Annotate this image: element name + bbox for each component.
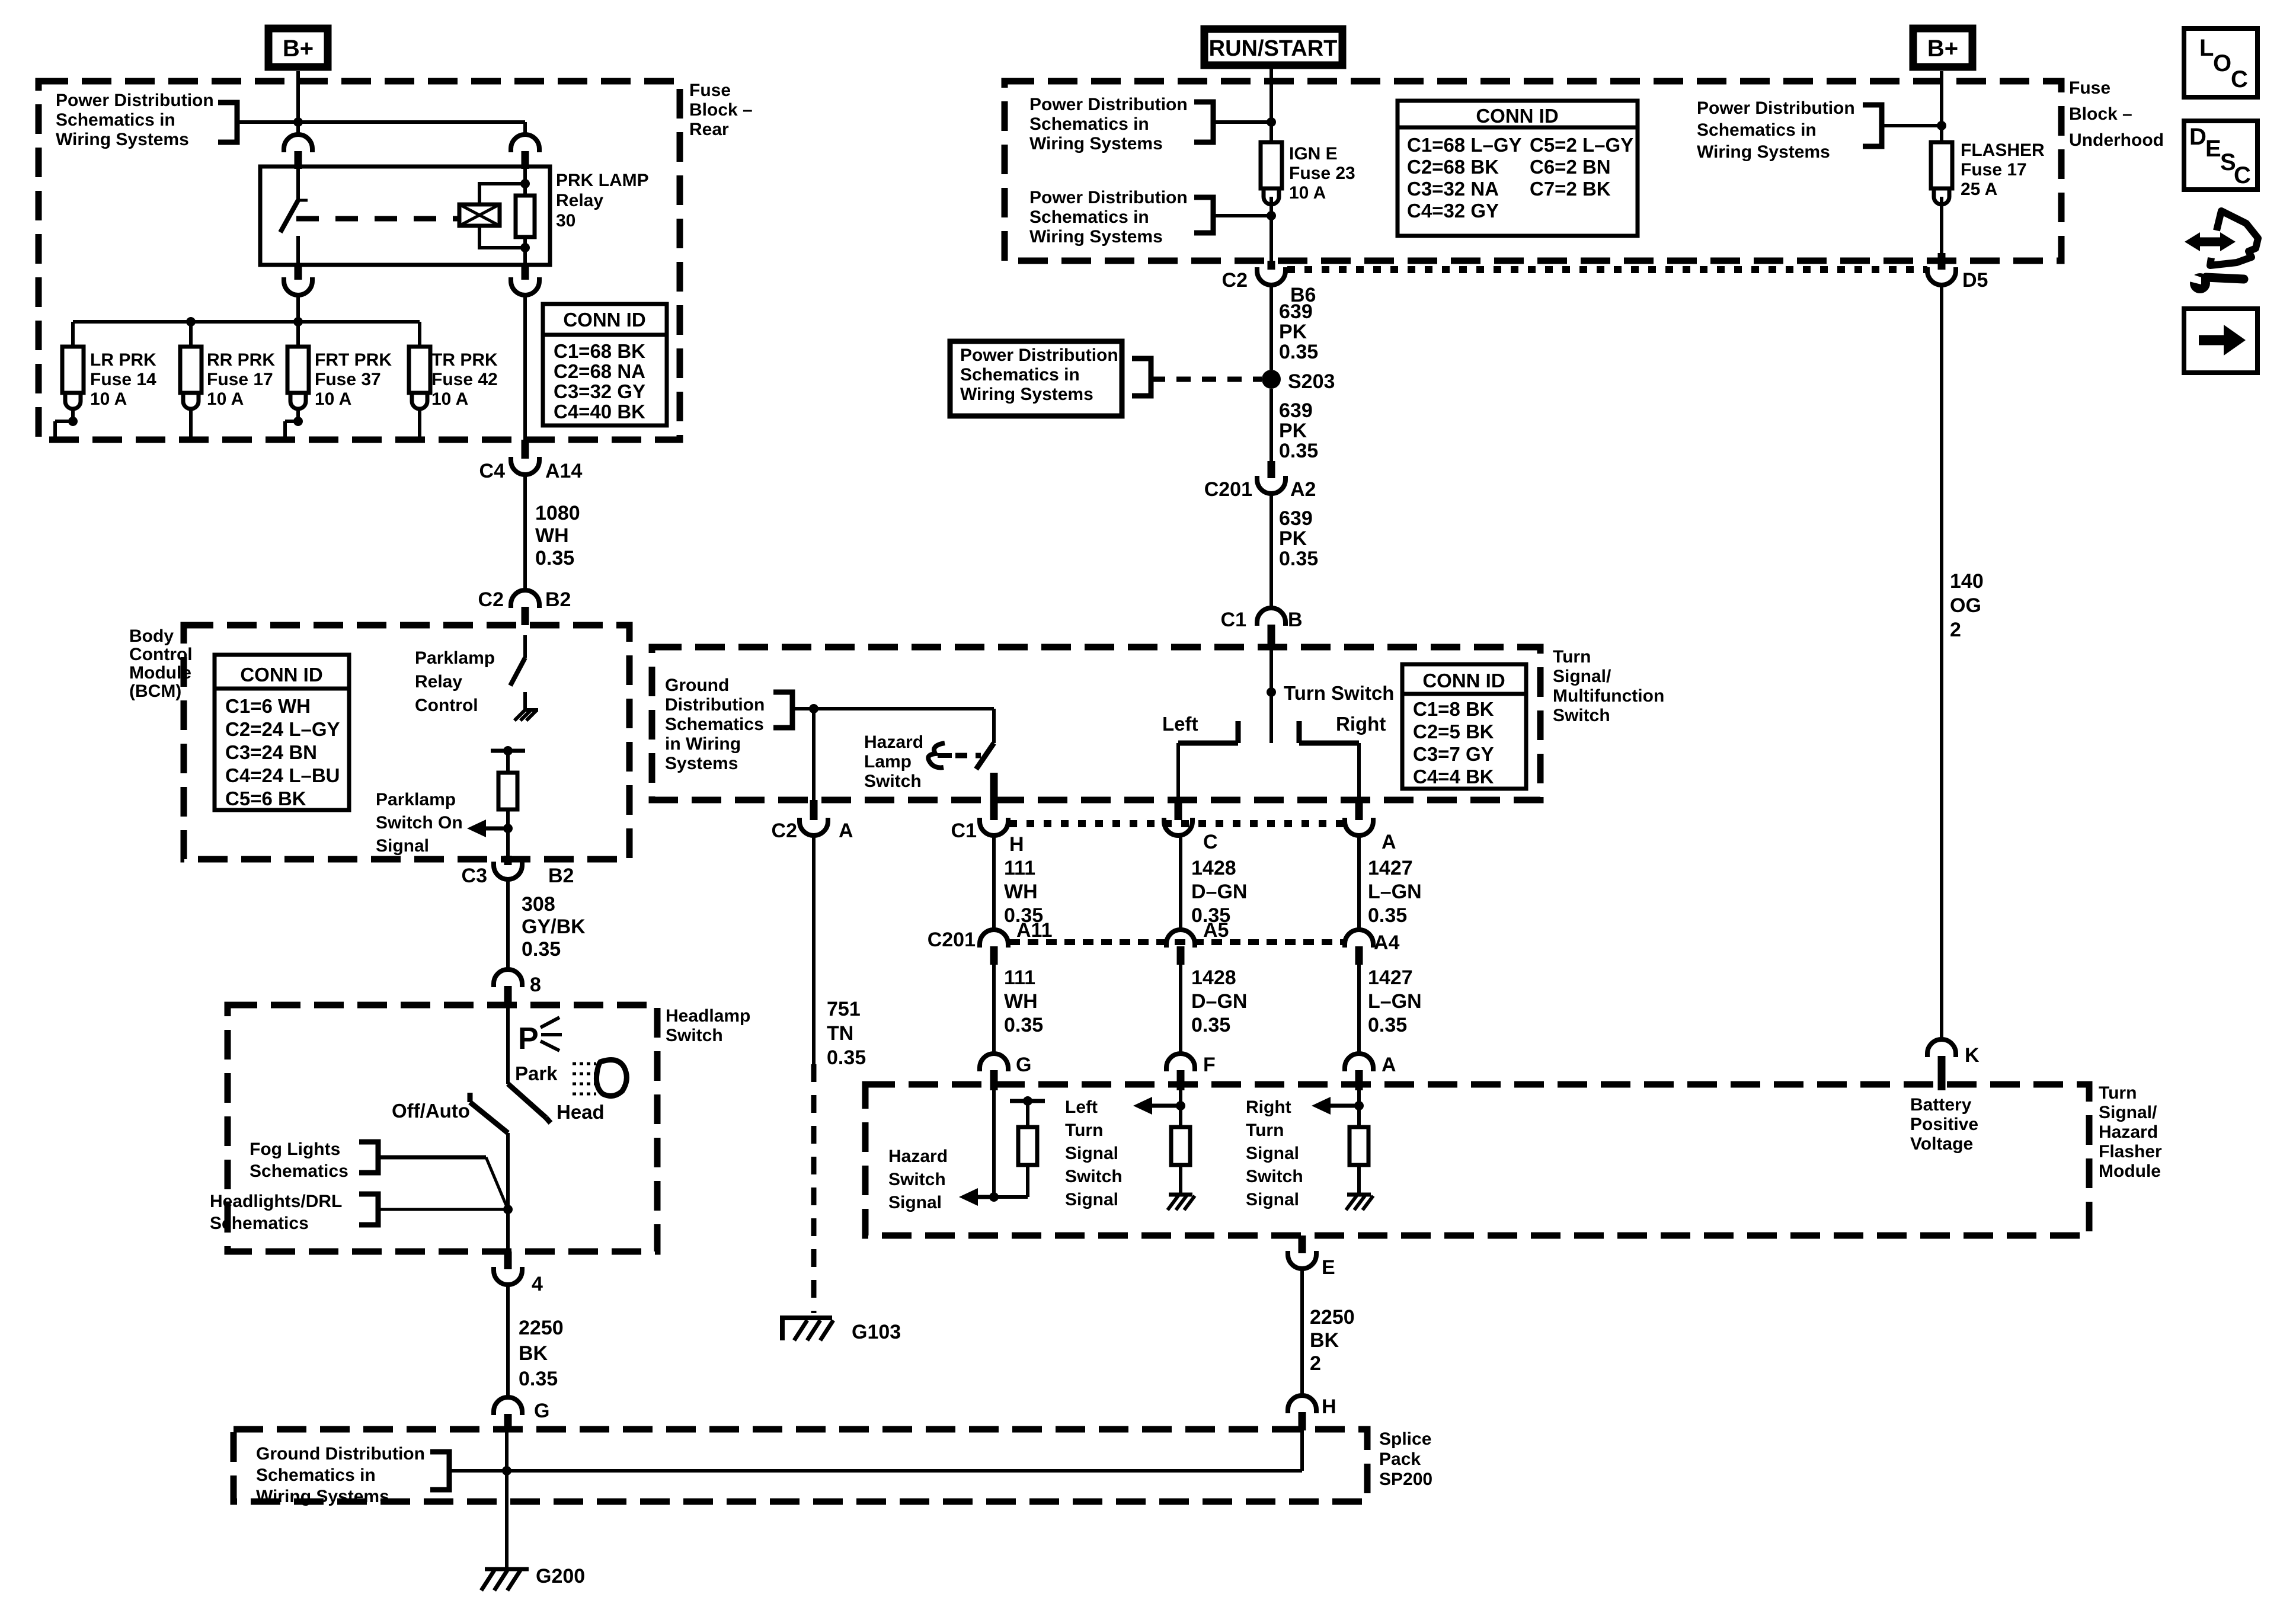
svg-text:Switch On: Switch On xyxy=(376,813,463,833)
svg-text:A: A xyxy=(1382,831,1396,853)
dashed link connector row C201 xyxy=(1009,939,1344,945)
svg-text:Schematics in: Schematics in xyxy=(56,110,175,130)
wire 2250 BK 2 xyxy=(1300,1269,1304,1395)
svg-text:PK: PK xyxy=(1279,420,1307,442)
svg-text:Splice: Splice xyxy=(1379,1429,1431,1449)
svg-text:Schematics in: Schematics in xyxy=(960,365,1080,385)
resistor relay parallel xyxy=(523,169,527,196)
node FRT fuse junction xyxy=(293,417,303,426)
wire turn switch feed xyxy=(1269,647,1273,743)
svg-text:Block –: Block – xyxy=(2069,104,2132,124)
connector relay out left xyxy=(295,265,302,280)
svg-text:Parklamp: Parklamp xyxy=(415,648,495,668)
svg-text:Schematics in: Schematics in xyxy=(1029,114,1149,134)
connector E flasher ground out xyxy=(1299,1235,1306,1253)
svg-text:BK: BK xyxy=(1310,1329,1339,1352)
icon wrench xyxy=(2190,273,2210,293)
svg-text:K: K xyxy=(1965,1044,1980,1067)
switch parklamp relay control xyxy=(523,635,527,658)
wire bracket underhood to junction xyxy=(1882,124,1942,127)
wire headlights DRL xyxy=(378,1208,508,1211)
node underhood junction xyxy=(1937,121,1946,130)
fuse RR PRK Fuse 17 xyxy=(180,347,202,393)
connector 4 below headlamp switch xyxy=(504,1251,512,1269)
svg-text:Switch: Switch xyxy=(888,1170,946,1189)
svg-text:Module: Module xyxy=(2099,1161,2161,1181)
node left turn junction xyxy=(1176,1101,1185,1110)
connector G ground wire xyxy=(494,1397,522,1415)
connector D5 xyxy=(1938,253,1946,270)
svg-text:0.35: 0.35 xyxy=(1279,341,1318,363)
svg-text:C4=24 L–BU: C4=24 L–BU xyxy=(225,764,340,786)
wire TR fuse out xyxy=(418,410,421,440)
svg-text:Signal/: Signal/ xyxy=(1553,667,1611,686)
node ignition junction upper xyxy=(1267,117,1276,127)
wire headlamp out xyxy=(506,1133,510,1251)
connector C201 A4 xyxy=(1345,930,1373,948)
fuse IGN E Fuse 23 xyxy=(1261,142,1282,188)
svg-text:B2: B2 xyxy=(545,588,571,611)
svg-text:10 A: 10 A xyxy=(207,389,244,409)
svg-text:Switch: Switch xyxy=(1553,706,1610,725)
svg-text:Control: Control xyxy=(415,696,478,715)
svg-text:1428: 1428 xyxy=(1191,857,1236,879)
table CONN ID BCM xyxy=(215,655,349,810)
fuse TR PRK Fuse 42 xyxy=(409,347,430,393)
contact hazard lower xyxy=(990,773,998,800)
dashed box ground distribution bottom xyxy=(234,1429,1367,1502)
svg-text:CONN ID: CONN ID xyxy=(563,309,645,331)
svg-text:C6=2 BN: C6=2 BN xyxy=(1530,156,1611,178)
svg-text:E: E xyxy=(2205,136,2221,162)
svg-text:Turn: Turn xyxy=(2099,1083,2137,1103)
arrow parklamp switch on signal xyxy=(467,820,486,837)
svg-text:Schematics: Schematics xyxy=(250,1161,348,1181)
connector C2 B6 xyxy=(1268,261,1275,270)
node parklamp signal junction xyxy=(503,824,513,833)
svg-text:in Wiring: in Wiring xyxy=(665,734,741,754)
svg-text:Block –: Block – xyxy=(689,100,753,120)
svg-text:TR PRK: TR PRK xyxy=(431,350,498,370)
svg-text:L: L xyxy=(2199,35,2214,61)
svg-text:C2=68 BK: C2=68 BK xyxy=(1407,156,1499,178)
svg-text:10 A: 10 A xyxy=(90,389,127,409)
wire RUN/START down xyxy=(1269,69,1273,142)
svg-text:Right: Right xyxy=(1246,1097,1291,1117)
wire hazard feed down xyxy=(812,709,816,800)
icon box LOC xyxy=(2184,28,2257,97)
wire to C3 xyxy=(506,828,510,856)
svg-text:Head: Head xyxy=(557,1101,605,1123)
connector C3 B2 xyxy=(494,862,522,879)
wire bracket lower to junction xyxy=(1213,214,1271,217)
dashed ref wire to S203 xyxy=(1151,377,1262,382)
svg-text:C201: C201 xyxy=(928,929,976,951)
svg-text:CONN ID: CONN ID xyxy=(240,664,322,686)
wire hazard into module xyxy=(992,1090,996,1197)
svg-text:A5: A5 xyxy=(1203,919,1229,942)
arrow hazard switch signal xyxy=(959,1188,978,1206)
connector H splice pack xyxy=(1288,1395,1316,1413)
svg-text:4: 4 xyxy=(532,1273,543,1295)
svg-text:A11: A11 xyxy=(1016,919,1053,942)
relay mechanical dashed link xyxy=(296,216,459,222)
svg-text:CONN ID: CONN ID xyxy=(1476,105,1558,127)
svg-text:A14: A14 xyxy=(545,460,582,482)
svg-text:Power Distribution: Power Distribution xyxy=(1697,98,1855,118)
svg-text:C5=2 L–GY: C5=2 L–GY xyxy=(1530,134,1633,156)
svg-text:TN: TN xyxy=(827,1022,853,1045)
icon headlamp hatch xyxy=(573,1062,596,1065)
svg-text:C3=24 BN: C3=24 BN xyxy=(225,741,317,763)
svg-text:C4: C4 xyxy=(479,460,506,482)
svg-text:Signal: Signal xyxy=(1246,1144,1299,1163)
connector C1 B into turn switch xyxy=(1257,608,1285,626)
wire bus drop FRT xyxy=(296,322,300,347)
svg-text:Switch: Switch xyxy=(1065,1167,1123,1186)
svg-text:C3: C3 xyxy=(462,865,487,887)
svg-text:Left: Left xyxy=(1065,1097,1098,1117)
wire 111 WH lower xyxy=(992,965,996,1054)
svg-text:Fuse 14: Fuse 14 xyxy=(90,370,156,389)
svg-text:G200: G200 xyxy=(536,1565,585,1587)
svg-text:A: A xyxy=(1382,1054,1396,1076)
resistor right turn xyxy=(1357,1106,1361,1127)
svg-text:C3=7 GY: C3=7 GY xyxy=(1413,743,1494,765)
icon pointer outline xyxy=(2210,211,2258,265)
bracket S203 ref xyxy=(1132,359,1151,396)
wire fuse bus xyxy=(73,320,420,324)
svg-text:2250: 2250 xyxy=(1310,1306,1355,1329)
wire 1080 WH xyxy=(523,475,527,590)
svg-text:OG: OG xyxy=(1950,594,1981,617)
svg-text:D: D xyxy=(2189,124,2207,150)
svg-text:WH: WH xyxy=(535,524,569,547)
svg-text:PK: PK xyxy=(1279,321,1307,343)
svg-text:Turn: Turn xyxy=(1553,647,1591,667)
svg-text:C: C xyxy=(2234,162,2251,188)
wire 2250 BK 0.35 xyxy=(506,1285,510,1397)
table CONN ID underhood xyxy=(1398,101,1638,236)
svg-text:IGN E: IGN E xyxy=(1289,144,1338,164)
svg-text:Signal/: Signal/ xyxy=(2099,1103,2157,1122)
rail hazard pullup xyxy=(1010,1099,1045,1103)
svg-text:639: 639 xyxy=(1279,507,1313,530)
bracket to power distribution (rear) xyxy=(218,103,237,142)
svg-text:Rear: Rear xyxy=(689,120,729,139)
svg-text:L–GN: L–GN xyxy=(1368,881,1422,903)
switch hazard blade xyxy=(992,709,996,743)
dashed box Body Control Module xyxy=(184,625,629,859)
icon hazard button xyxy=(928,743,945,767)
svg-text:Switch: Switch xyxy=(666,1026,723,1045)
svg-text:0.35: 0.35 xyxy=(522,938,561,961)
splice S203 xyxy=(1262,370,1281,389)
svg-text:Schematics: Schematics xyxy=(210,1214,309,1233)
svg-text:(BCM): (BCM) xyxy=(129,681,181,701)
power label RUN/START xyxy=(1204,29,1342,65)
svg-text:GY/BK: GY/BK xyxy=(522,916,586,938)
dashed box Turn Signal Hazard Flasher Module xyxy=(865,1084,2089,1235)
svg-text:Fuse 23: Fuse 23 xyxy=(1289,164,1355,183)
svg-text:Fog Lights: Fog Lights xyxy=(250,1140,340,1159)
connector C2 A hazard xyxy=(810,800,818,820)
node bus junction FRT xyxy=(293,317,303,327)
svg-text:B+: B+ xyxy=(283,36,314,62)
svg-text:B2: B2 xyxy=(548,865,574,887)
svg-text:LR PRK: LR PRK xyxy=(90,350,156,370)
svg-text:2250: 2250 xyxy=(519,1317,564,1339)
svg-text:Lamp: Lamp xyxy=(864,752,912,772)
svg-text:Schematics in: Schematics in xyxy=(1029,207,1149,227)
box Power Distribution Schematics (S203) xyxy=(950,341,1122,416)
svg-text:C2=5 BK: C2=5 BK xyxy=(1413,721,1494,742)
dotted link connector row C1 xyxy=(1009,820,1344,827)
svg-text:C7=2 BK: C7=2 BK xyxy=(1530,178,1611,200)
connector F flasher xyxy=(1166,1054,1195,1071)
svg-text:308: 308 xyxy=(522,893,555,916)
svg-text:Schematics: Schematics xyxy=(665,715,764,734)
svg-text:C: C xyxy=(1203,831,1218,853)
wire 751 TN hazard ground xyxy=(812,836,816,1064)
connector 8 into headlamp switch xyxy=(494,969,522,987)
dashed box Turn Signal Multifunction Switch xyxy=(652,647,1540,800)
svg-text:C5=6 BK: C5=6 BK xyxy=(225,788,306,809)
svg-text:Fuse: Fuse xyxy=(689,81,731,100)
svg-text:C4=40 BK: C4=40 BK xyxy=(554,401,645,422)
resistor parklamp pullup xyxy=(506,751,510,773)
svg-text:C4=4 BK: C4=4 BK xyxy=(1413,766,1494,788)
svg-text:Signal: Signal xyxy=(888,1193,942,1212)
switch blade off/auto xyxy=(468,1093,473,1102)
svg-text:C4=32 GY: C4=32 GY xyxy=(1407,200,1499,222)
node ignition junction lower xyxy=(1267,211,1276,220)
ground right turn internal xyxy=(1347,1193,1371,1197)
svg-text:0.35: 0.35 xyxy=(1368,904,1407,927)
svg-text:C2: C2 xyxy=(478,588,504,611)
svg-text:Hazard: Hazard xyxy=(888,1147,948,1166)
icon double arrow xyxy=(2185,232,2200,251)
ground G103 xyxy=(782,1318,832,1340)
node bus junction RR xyxy=(186,317,196,327)
wire G200 down xyxy=(505,1432,509,1568)
connector relay pin 1 (switch) xyxy=(296,122,300,135)
svg-text:639: 639 xyxy=(1279,399,1313,422)
svg-text:8: 8 xyxy=(530,974,541,996)
svg-text:2: 2 xyxy=(1310,1352,1321,1375)
wire corner to relay coil side xyxy=(523,122,527,135)
dotted link C2 to D5 xyxy=(1287,266,1927,273)
connector relay pin 2 (coil) xyxy=(511,135,539,152)
svg-text:30: 30 xyxy=(556,211,575,231)
wire 111 WH upper xyxy=(992,836,996,930)
svg-text:0.35: 0.35 xyxy=(1279,440,1318,462)
svg-text:Wiring Systems: Wiring Systems xyxy=(1697,142,1830,162)
wire 639 PK segment 2 xyxy=(1269,389,1273,461)
svg-text:Turn Switch: Turn Switch xyxy=(1284,682,1394,704)
wire fog lights xyxy=(378,1156,486,1160)
svg-text:Wiring Systems: Wiring Systems xyxy=(256,1487,389,1506)
svg-text:FRT PRK: FRT PRK xyxy=(315,350,392,370)
wire right turn into module xyxy=(1357,1090,1361,1106)
connector C4 A14 xyxy=(522,440,529,459)
svg-text:G: G xyxy=(1016,1054,1031,1076)
svg-text:S203: S203 xyxy=(1288,370,1335,393)
wire bracket to G200 xyxy=(449,1469,507,1473)
connector G flasher xyxy=(980,1054,1008,1071)
connector C2 B2 into BCM xyxy=(511,590,539,608)
node headlamp out junction xyxy=(503,1205,513,1214)
wire 1427 L-GN lower xyxy=(1357,965,1361,1054)
wire IGN fuse out xyxy=(1269,204,1273,261)
bracket ground distribution (turn box) xyxy=(773,692,792,728)
icon box DESC xyxy=(2184,121,2257,190)
connector C1 H hazard switch out xyxy=(990,800,998,820)
resistor hazard pullup xyxy=(1026,1101,1029,1127)
svg-text:Wiring Systems: Wiring Systems xyxy=(960,385,1093,404)
wire 1428 D-GN upper xyxy=(1179,836,1182,930)
icon box arrow right xyxy=(2184,309,2257,373)
connector C201 A5 xyxy=(1166,930,1195,948)
power label B+ (left battery feed) xyxy=(268,28,328,67)
wire coil top to right xyxy=(479,184,525,204)
table CONN ID turn switch xyxy=(1402,664,1526,789)
svg-text:O: O xyxy=(2213,50,2231,76)
svg-text:WH: WH xyxy=(1004,881,1038,903)
svg-text:Fuse 37: Fuse 37 xyxy=(315,370,381,389)
svg-text:Ground: Ground xyxy=(665,676,729,695)
wire hazard feed xyxy=(792,707,994,710)
ground internal BCM xyxy=(514,710,525,721)
svg-text:C3=32 GY: C3=32 GY xyxy=(554,380,645,402)
node LR fuse junction xyxy=(68,417,78,426)
resistor left turn xyxy=(1179,1106,1182,1127)
svg-text:CONN ID: CONN ID xyxy=(1422,670,1505,692)
wire 639 PK segment 1 xyxy=(1269,285,1273,370)
node junction B+ feed xyxy=(293,117,303,127)
wire headlamp feed xyxy=(506,1005,510,1084)
svg-text:Relay: Relay xyxy=(556,191,603,210)
svg-text:Power Distribution: Power Distribution xyxy=(56,91,214,110)
wire 1427 L-GN upper xyxy=(1357,836,1361,930)
wire H into splice pack xyxy=(1300,1430,1304,1471)
svg-text:140: 140 xyxy=(1950,570,1984,593)
svg-text:0.35: 0.35 xyxy=(519,1368,558,1390)
wire 639 PK segment 3 xyxy=(1269,494,1273,608)
power label B+ (right battery feed) xyxy=(1913,28,1972,67)
svg-text:C1=6 WH: C1=6 WH xyxy=(225,695,311,717)
svg-text:Left: Left xyxy=(1162,713,1198,735)
relay box PRK LAMP Relay 30 xyxy=(260,167,550,265)
wire coil bottom to right xyxy=(479,226,525,248)
svg-text:Positive: Positive xyxy=(1910,1115,1978,1134)
svg-text:BK: BK xyxy=(519,1342,548,1365)
contact turn right xyxy=(1297,721,1302,743)
svg-text:Body: Body xyxy=(129,626,174,646)
connector relay out right xyxy=(522,265,529,280)
svg-text:Wiring Systems: Wiring Systems xyxy=(56,130,189,149)
svg-text:751: 751 xyxy=(827,998,861,1020)
svg-text:C201: C201 xyxy=(1204,478,1252,501)
svg-text:H: H xyxy=(1322,1395,1336,1418)
svg-text:10 A: 10 A xyxy=(315,389,351,409)
connector C201 A11 xyxy=(980,930,1008,948)
svg-text:C2: C2 xyxy=(772,820,797,842)
dashed wire to G103 xyxy=(811,1064,817,1313)
svg-text:Headlights/DRL: Headlights/DRL xyxy=(210,1192,342,1211)
svg-text:G: G xyxy=(534,1400,549,1422)
wire power distribution feed xyxy=(237,120,525,124)
svg-text:Systems: Systems xyxy=(665,754,738,773)
svg-text:F: F xyxy=(1203,1054,1216,1076)
svg-text:Underhood: Underhood xyxy=(2069,130,2164,150)
wire RR fuse out xyxy=(189,410,193,440)
svg-text:C1=8 BK: C1=8 BK xyxy=(1413,698,1494,720)
svg-text:Turn: Turn xyxy=(1065,1121,1103,1140)
svg-text:2: 2 xyxy=(1950,619,1961,641)
svg-text:Switch: Switch xyxy=(864,772,922,791)
svg-text:639: 639 xyxy=(1279,300,1313,323)
svg-text:Signal: Signal xyxy=(1246,1190,1299,1209)
svg-text:Fuse: Fuse xyxy=(2069,78,2110,98)
svg-text:RUN/START: RUN/START xyxy=(1209,36,1338,61)
svg-text:Power Distribution: Power Distribution xyxy=(1029,188,1188,207)
node hazard signal junction xyxy=(989,1192,999,1202)
svg-text:A: A xyxy=(839,820,853,842)
svg-text:0.35: 0.35 xyxy=(1004,1014,1043,1036)
svg-text:25 A: 25 A xyxy=(1961,180,1997,199)
bracket power distribution lower xyxy=(1194,197,1213,233)
svg-text:Signal: Signal xyxy=(1065,1144,1118,1163)
svg-text:A2: A2 xyxy=(1290,478,1316,501)
wire 140 OG 2 xyxy=(1940,285,1943,1039)
connector C left turn out xyxy=(1175,800,1182,820)
relay switch contact xyxy=(296,167,300,200)
wire FRT fuse out xyxy=(296,410,300,421)
svg-text:0.35: 0.35 xyxy=(1368,1014,1407,1036)
svg-text:B: B xyxy=(1288,609,1303,631)
svg-text:Schematics in: Schematics in xyxy=(1697,120,1817,140)
fuse FRT PRK Fuse 37 xyxy=(287,347,309,393)
node coil bottom junction xyxy=(520,243,530,252)
svg-text:D–GN: D–GN xyxy=(1191,881,1247,903)
wire right B+ down xyxy=(1940,71,1943,142)
svg-text:C1=68 BK: C1=68 BK xyxy=(554,340,645,362)
rail parklamp pullup xyxy=(491,749,525,753)
svg-text:Signal: Signal xyxy=(376,836,429,856)
node hazard feed junction xyxy=(809,704,818,713)
svg-text:FLASHER: FLASHER xyxy=(1961,140,2045,160)
svg-text:Ground Distribution: Ground Distribution xyxy=(256,1444,425,1464)
svg-text:SP200: SP200 xyxy=(1379,1470,1432,1489)
svg-text:1427: 1427 xyxy=(1368,857,1413,879)
svg-text:D–GN: D–GN xyxy=(1191,990,1247,1013)
svg-text:10 A: 10 A xyxy=(431,389,468,409)
svg-text:10 A: 10 A xyxy=(1289,183,1326,203)
svg-text:0.35: 0.35 xyxy=(1279,548,1318,570)
svg-text:Fuse 42: Fuse 42 xyxy=(431,370,498,389)
svg-text:Park: Park xyxy=(515,1062,558,1084)
wire bracket upper to junction xyxy=(1213,120,1271,124)
arrow right turn signal xyxy=(1312,1097,1331,1115)
svg-text:0.35: 0.35 xyxy=(827,1046,866,1069)
wire LR fuse out xyxy=(71,410,75,421)
bracket power distribution upper xyxy=(1194,102,1213,142)
svg-text:E: E xyxy=(1322,1256,1335,1279)
svg-text:A4: A4 xyxy=(1374,932,1400,954)
svg-text:Parklamp: Parklamp xyxy=(376,790,456,809)
fuse FLASHER Fuse 17 xyxy=(1931,142,1952,188)
